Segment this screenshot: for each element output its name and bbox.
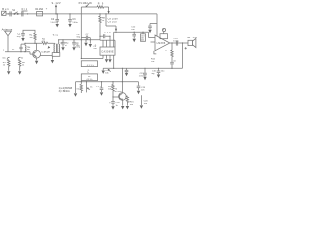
ground transformer: [51, 56, 54, 64]
svg-text:65p: 65p: [77, 36, 81, 38]
switch S1: [14, 12, 19, 15]
svg-text:L1: L1: [12, 49, 15, 51]
trimmer arrow Tr1: [48, 46, 51, 49]
capacitor C5 tank: [21, 33, 25, 37]
node junction: [8, 13, 9, 14]
svg-text:C9 10u: C9 10u: [108, 22, 118, 24]
svg-text:1.: 1.: [95, 44, 97, 46]
svg-text:u: u: [3, 50, 5, 52]
capacitor C16 af: [157, 68, 161, 78]
ground: [21, 38, 24, 41]
wire pin2 to pot: [81, 58, 103, 59]
wire detector to collector: [121, 68, 123, 81]
speaker LS1: [188, 38, 196, 47]
wire lower node: [100, 40, 115, 47]
svg-text:3) = BF441: 3) = BF441: [59, 91, 71, 93]
svg-text:Tr1: Tr1: [53, 34, 59, 37]
SECTION: AF bus and volume: [102, 43, 183, 82]
svg-text:455k: 455k: [86, 79, 93, 81]
svg-text:C2: C2: [51, 18, 55, 21]
label C6 top: [77, 34, 81, 38]
ground IF node: [84, 39, 87, 46]
wire supply IF: [114, 32, 149, 47]
svg-text:3: 3: [165, 50, 167, 52]
svg-text:mw: mw: [2, 57, 6, 59]
wire box to bus: [80, 81, 82, 85]
legend text: [59, 88, 73, 93]
gain box: [160, 32, 168, 39]
label R1: [29, 34, 33, 39]
label R14: [108, 86, 113, 91]
wire transistor to transformer: [40, 55, 52, 57]
svg-text:9..12V: 9..12V: [52, 1, 61, 5]
svg-text:T1 BF254: T1 BF254: [41, 52, 51, 54]
svg-text:1k: 1k: [3, 65, 6, 67]
resistor R1: [34, 33, 36, 43]
node junction: [27, 13, 28, 14]
ground pin: [105, 59, 108, 62]
label T1: [28, 47, 51, 54]
label T2: [115, 89, 123, 94]
capacitor C19: [137, 82, 141, 95]
svg-text:S1: S1: [12, 9, 16, 12]
svg-text:+: +: [46, 7, 48, 10]
svg-text:8R: 8R: [187, 37, 190, 39]
label C15: [139, 73, 145, 78]
wire right feed to amp: [150, 14, 157, 36]
label R15: [130, 101, 135, 106]
capacitor C17: [100, 82, 104, 96]
label C19: [141, 87, 146, 92]
svg-text:LM386: LM386: [157, 42, 166, 45]
resistor R13 zobel: [171, 43, 177, 62]
wire filter input: [99, 34, 110, 38]
SECTION: top supply rail: [2, 1, 157, 59]
capacitor C2 series: [22, 11, 23, 16]
capacitor zobel: [170, 59, 174, 69]
svg-text:Bu1: Bu1: [2, 7, 9, 11]
label C18: [116, 102, 121, 107]
label R5: [3, 62, 7, 67]
capacitor C7b coupling: [81, 36, 92, 48]
label R12 amp: [151, 59, 156, 64]
transformer Tr1: [52, 34, 60, 56]
SECTION: bottom AGC stage: [59, 81, 149, 110]
capacitor C18 electrolytic: [109, 97, 115, 110]
label C3: [50, 18, 57, 24]
svg-text:+: +: [109, 102, 111, 105]
capacitor C5 amp supply: [148, 24, 152, 34]
capacitor C ground stub: [125, 68, 129, 76]
SECTION: ceramic filter block: [95, 32, 149, 69]
svg-text:C17: C17: [96, 86, 102, 88]
label C5: [17, 33, 21, 38]
SECTION: detector caps: [131, 27, 155, 43]
capacitor C3 to ground: [55, 13, 59, 23]
pot wiper bottom: [87, 82, 94, 93]
svg-text:100p: 100p: [75, 46, 81, 48]
resistor R14: [112, 82, 114, 98]
label R11 volume: [105, 70, 110, 74]
coil hook lw: [18, 57, 23, 59]
wire opamp minus input: [151, 41, 156, 43]
svg-text:1k: 1k: [22, 65, 25, 67]
wire opamp plus input: [149, 32, 156, 37]
trimmer cap: [19, 44, 25, 52]
capacitor C12: [132, 32, 136, 43]
capacitor C20: [140, 95, 143, 109]
ground bottom left: [74, 82, 77, 97]
svg-text:10n: 10n: [93, 48, 96, 50]
label C8 C9: [108, 19, 119, 24]
svg-text:R1: R1: [29, 34, 33, 36]
ground: [56, 24, 59, 27]
svg-text:CA3089E: CA3089E: [101, 50, 114, 53]
antenna: [5, 31, 12, 52]
resistor R2: [42, 42, 53, 44]
volume wiper arrow: [108, 69, 111, 72]
svg-text:C10: C10: [104, 32, 111, 34]
svg-text:10u: 10u: [144, 103, 148, 105]
wire to arrow: [104, 7, 110, 14]
svg-text:lw: lw: [21, 57, 23, 59]
ground volume: [102, 68, 105, 74]
diode D1 box: [37, 12, 43, 16]
label R2: [41, 38, 45, 43]
capacitor C15 af: [143, 68, 147, 80]
node junction pot line: [75, 39, 82, 48]
svg-text:Antenne: Antenne: [2, 27, 13, 31]
svg-text:4u7: 4u7: [27, 49, 31, 51]
ground pin: [108, 59, 111, 62]
svg-text:C7: C7: [86, 34, 90, 36]
svg-text:1k: 1k: [102, 20, 105, 22]
label C6: [60, 43, 69, 47]
svg-text:100n: 100n: [72, 22, 78, 24]
wire base node: [24, 43, 42, 44]
resistor R15 emitter: [126, 96, 129, 110]
label C4: [72, 18, 78, 24]
wire IF supply feed: [105, 13, 117, 32]
SECTION: IF filter boxes: [81, 58, 103, 84]
capacitor C7: [72, 40, 76, 51]
svg-text:10: 10: [173, 60, 176, 62]
wire pot top: [81, 7, 97, 59]
svg-text:1) u.2) BC548: 1) u.2) BC548: [59, 88, 73, 90]
label C14: [173, 38, 179, 43]
SECTION: band coils left: [2, 57, 25, 74]
wire antenna bottom: [5, 51, 30, 52]
wire speaker return: [182, 43, 184, 68]
pin hook: [154, 51, 156, 54]
svg-text:10n: 10n: [141, 89, 145, 91]
label circle U3: [162, 28, 165, 31]
capacitor C6: [61, 40, 65, 51]
label C12: [131, 27, 136, 32]
label R8: [102, 18, 106, 23]
svg-text:455: 455: [141, 40, 144, 42]
label Dr1: [22, 8, 28, 11]
ground: [68, 24, 71, 27]
label L1: [3, 49, 15, 52]
inductor L2: [25, 43, 26, 51]
resistor R6: [18, 60, 21, 75]
label C20: [144, 101, 149, 106]
label plus speaker: [185, 47, 187, 49]
svg-text:100: 100: [130, 104, 134, 106]
svg-text:100u: 100u: [173, 41, 179, 43]
resistor R5: [7, 60, 10, 75]
SECTION: IF transformer and node: [48, 34, 100, 64]
svg-text:82p: 82p: [17, 36, 21, 38]
coil hook mw: [2, 57, 9, 59]
svg-text:10n: 10n: [131, 29, 135, 31]
pin wires top: [103, 36, 110, 47]
label LS1: [187, 37, 197, 39]
label R6: [22, 62, 26, 67]
label L2: [27, 47, 31, 52]
wire rail: [6, 13, 157, 15]
capacitor C4 to ground: [68, 13, 72, 23]
svg-text:log: log: [152, 73, 156, 75]
wire tank node: [23, 30, 35, 33]
svg-text:R9: R9: [98, 3, 104, 6]
wire emitter ground: [35, 58, 38, 64]
resonator B1: [141, 32, 146, 42]
transistor T1: [30, 43, 40, 58]
svg-text:BC548: BC548: [115, 91, 123, 93]
svg-text:455k: 455k: [87, 65, 94, 67]
svg-text:D1 1N4: D1 1N4: [35, 8, 43, 11]
filter box F1: [81, 61, 97, 67]
svg-text:C8 100n: C8 100n: [108, 19, 119, 21]
capacitor C1 series: [10, 11, 11, 16]
connector Bu1: [2, 11, 6, 15]
pot wiper arrow: [86, 3, 90, 7]
wire base: [113, 96, 119, 98]
resistor bottom pot: [80, 84, 82, 93]
pin wires bottom: [103, 55, 114, 68]
svg-text:10k: 10k: [105, 72, 109, 74]
svg-text:100n: 100n: [139, 75, 145, 77]
svg-text:10u: 10u: [161, 71, 165, 73]
resistor R9: [97, 6, 104, 8]
svg-text:P1 10k LIN: P1 10k LIN: [79, 1, 92, 5]
label C7: [76, 43, 80, 47]
svg-text:C1: C1: [17, 33, 21, 35]
wire output: [170, 42, 188, 43]
transistor T2: [119, 82, 127, 110]
resistor R8 vertical on rail: [99, 13, 101, 40]
svg-text:LS1: LS1: [193, 37, 198, 39]
op-amp U3 LM386: [155, 35, 170, 51]
SECTION: audio amplifier: [151, 28, 198, 68]
SECTION: RF front end: [2, 27, 53, 64]
svg-text:10k: 10k: [151, 61, 155, 63]
wire AF bus: [103, 68, 182, 69]
svg-text:T1: T1: [28, 47, 31, 49]
svg-text:1u: 1u: [116, 105, 119, 107]
wire IF node: [59, 39, 100, 40]
svg-text:1M: 1M: [29, 37, 32, 39]
capacitor C14 output: [176, 41, 177, 46]
label C16: [152, 71, 165, 73]
power arrow +9V: [55, 4, 57, 14]
svg-text:100u: 100u: [50, 22, 57, 24]
wire bottom bus: [76, 81, 139, 82]
svg-text:C3: C3: [72, 18, 76, 21]
label C9: [93, 46, 97, 50]
svg-text:1k: 1k: [90, 86, 93, 88]
filter box F2: [81, 74, 97, 81]
